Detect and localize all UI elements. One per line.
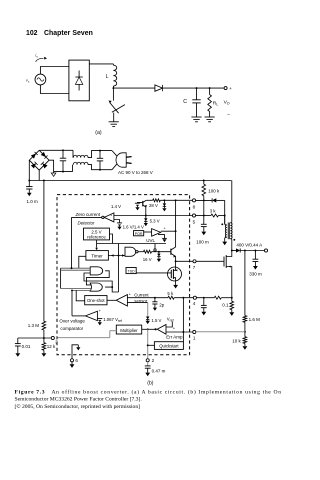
svg-text:Zero current: Zero current bbox=[75, 212, 101, 217]
svg-text:(b): (b) bbox=[147, 381, 153, 387]
svg-text:−: − bbox=[227, 112, 230, 118]
svg-text:100 m: 100 m bbox=[196, 239, 209, 244]
svg-text:1.0 m: 1.0 m bbox=[27, 199, 39, 204]
svg-text:TSD: TSD bbox=[128, 269, 135, 273]
svg-text:1.6 M: 1.6 M bbox=[249, 317, 261, 322]
svg-text:Timer: Timer bbox=[91, 254, 103, 259]
svg-text:C: C bbox=[183, 99, 187, 105]
svg-text:Over voltage: Over voltage bbox=[59, 318, 85, 323]
svg-text:Detector: Detector bbox=[78, 221, 96, 226]
svg-text:1.5 V: 1.5 V bbox=[151, 318, 161, 323]
svg-text:Figure 7.3 An offline boost: Figure 7.3 An offline boost converter. (… bbox=[15, 388, 282, 395]
svg-text:POR: POR bbox=[135, 232, 143, 236]
svg-text:5.3 V: 5.3 V bbox=[150, 218, 160, 223]
svg-text:−: − bbox=[110, 219, 112, 223]
svg-text:330 m: 330 m bbox=[249, 272, 262, 277]
svg-text:Multiplier: Multiplier bbox=[120, 328, 138, 333]
svg-text:1.3 M: 1.3 M bbox=[28, 323, 40, 328]
svg-text:Quickstart: Quickstart bbox=[159, 343, 179, 348]
svg-text:comparator: comparator bbox=[60, 326, 83, 331]
svg-text:400 V/0.44 A: 400 V/0.44 A bbox=[236, 242, 262, 247]
svg-text:1.4 V: 1.4 V bbox=[111, 204, 121, 209]
svg-text:0.47 m: 0.47 m bbox=[152, 368, 166, 373]
svg-text:0.1: 0.1 bbox=[222, 303, 229, 308]
svg-text:[© 2005, On Semiconductor, rep: [© 2005, On Semiconductor, reprinted wit… bbox=[15, 403, 141, 410]
svg-text:+: + bbox=[110, 214, 112, 218]
svg-text:3 k: 3 k bbox=[210, 209, 217, 214]
svg-text:16 V: 16 V bbox=[143, 257, 152, 262]
svg-text:10 k: 10 k bbox=[232, 338, 241, 343]
svg-text:102: 102 bbox=[26, 30, 38, 37]
svg-text:UVL: UVL bbox=[146, 238, 155, 243]
svg-text:Current: Current bbox=[134, 292, 149, 297]
svg-text:Semiconductor MC33262 Power Fa: Semiconductor MC33262 Power Factor Contr… bbox=[15, 397, 143, 403]
svg-text:2p: 2p bbox=[159, 303, 164, 308]
svg-text:28 V: 28 V bbox=[149, 203, 158, 208]
svg-text:Err Amp: Err Amp bbox=[166, 335, 183, 340]
svg-text:100 k: 100 k bbox=[208, 189, 220, 194]
svg-text:AC 90 V to 268 V: AC 90 V to 268 V bbox=[118, 170, 153, 175]
svg-text:+: + bbox=[229, 87, 232, 92]
svg-text:0.01: 0.01 bbox=[22, 344, 31, 349]
svg-text:5 k: 5 k bbox=[167, 291, 174, 296]
svg-text:+: + bbox=[164, 226, 166, 230]
svg-text:(a): (a) bbox=[95, 130, 102, 136]
svg-text:12 k: 12 k bbox=[47, 344, 56, 349]
svg-text:reference: reference bbox=[87, 235, 106, 240]
svg-text:Chapter Seven: Chapter Seven bbox=[44, 30, 93, 37]
svg-text:1.6 V/1.4 V: 1.6 V/1.4 V bbox=[123, 225, 144, 230]
svg-text:One-shot: One-shot bbox=[87, 298, 105, 303]
svg-text:L: L bbox=[106, 74, 109, 80]
